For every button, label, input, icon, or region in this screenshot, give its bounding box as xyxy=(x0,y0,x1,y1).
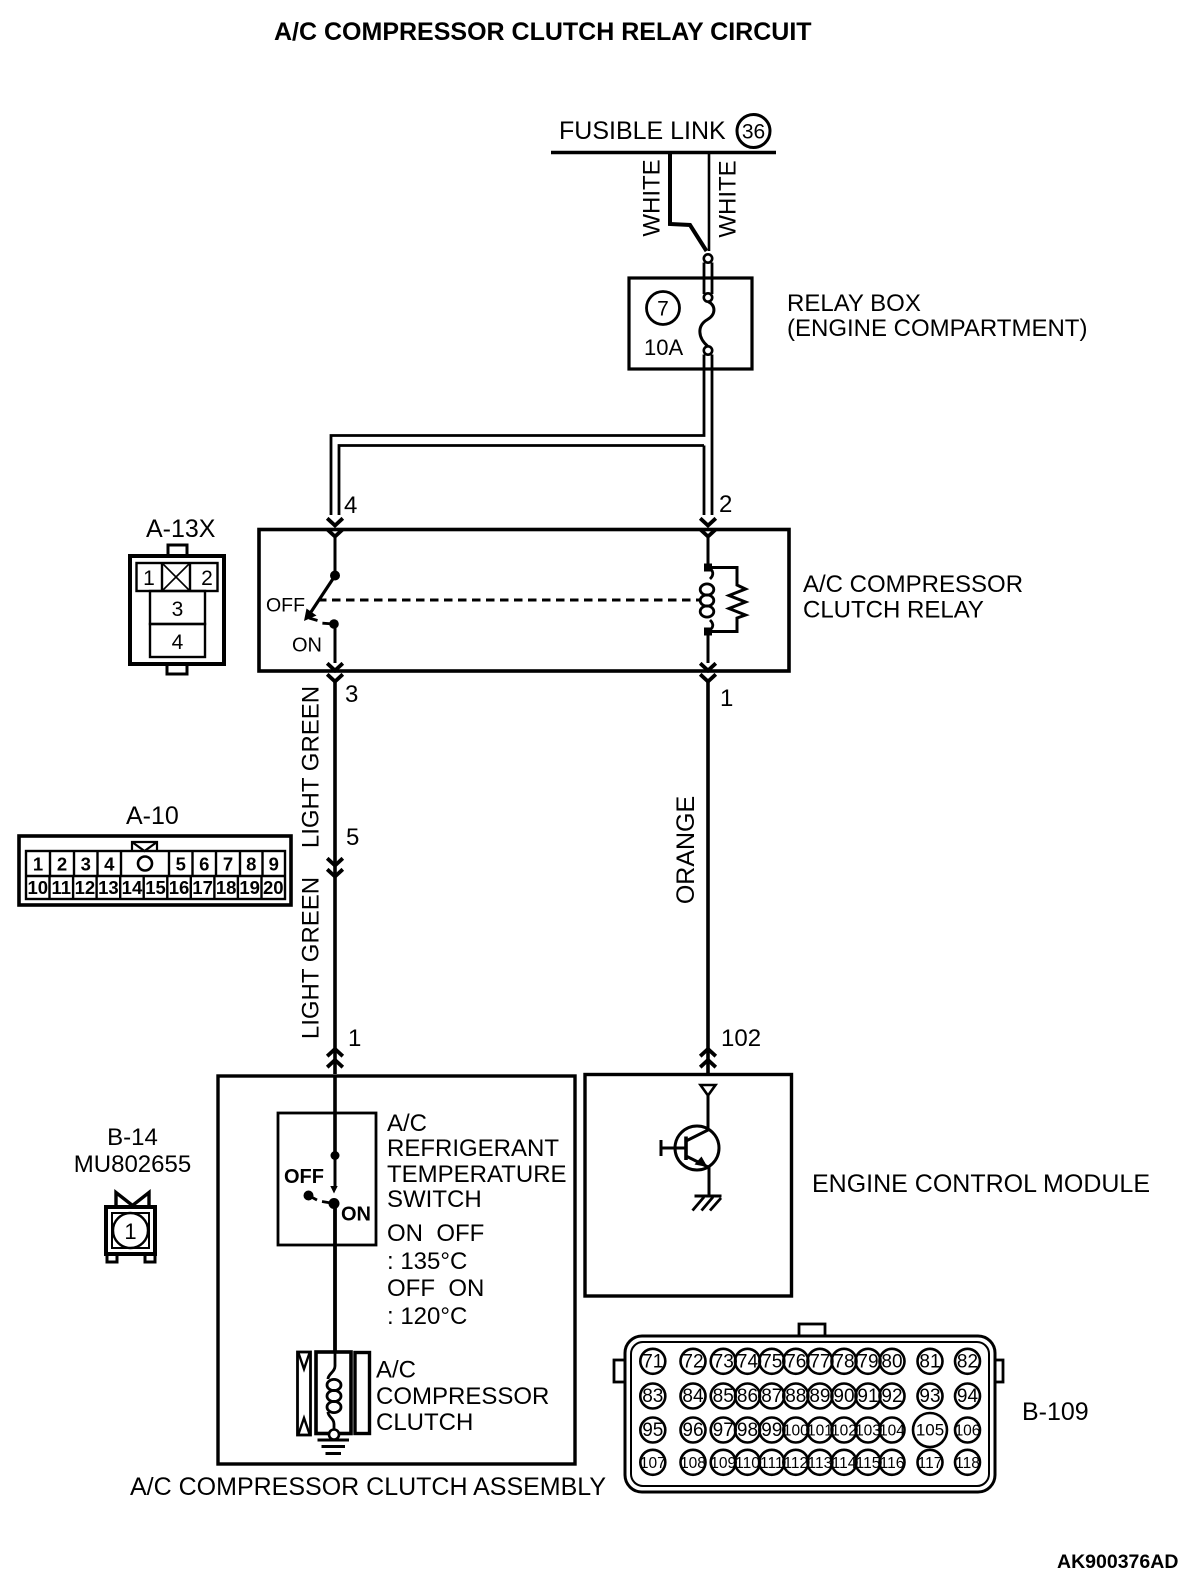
svg-text:90: 90 xyxy=(833,1386,854,1407)
svg-text:A-13X: A-13X xyxy=(146,515,216,543)
svg-text:2: 2 xyxy=(201,567,213,590)
svg-text:RELAY BOX: RELAY BOX xyxy=(787,290,921,317)
svg-text:16: 16 xyxy=(169,877,190,898)
svg-text:OFF ON: OFF ON xyxy=(387,1275,484,1302)
svg-text:REFRIGERANT: REFRIGERANT xyxy=(387,1135,559,1162)
svg-text:4: 4 xyxy=(104,854,115,875)
relay coil (inductor) xyxy=(708,568,713,579)
relay coil bottom node xyxy=(704,628,712,636)
clutch coil bobbin xyxy=(316,1352,351,1434)
wire hollow feed lower vertical xyxy=(331,355,704,516)
svg-text:12: 12 xyxy=(75,877,96,898)
wire ON contact to pin 3 xyxy=(334,626,337,663)
svg-text:CLUTCH: CLUTCH xyxy=(376,1409,473,1436)
svg-text:101: 101 xyxy=(807,1423,833,1440)
relay switch ON contact dot xyxy=(329,619,339,629)
svg-text:103: 103 xyxy=(855,1423,881,1440)
svg-text:14: 14 xyxy=(122,877,143,898)
fuse number 7 circled xyxy=(647,292,680,325)
A-10 pin numbers row2 xyxy=(27,877,283,898)
svg-text:A/C COMPRESSOR: A/C COMPRESSOR xyxy=(803,571,1023,598)
svg-text:LIGHT GREEN: LIGHT GREEN xyxy=(297,877,324,1039)
svg-text:110: 110 xyxy=(735,1455,760,1472)
svg-text:89: 89 xyxy=(809,1386,830,1407)
svg-text:WHITE: WHITE xyxy=(638,159,665,236)
B-109 pin row 71-82 xyxy=(640,1349,980,1374)
svg-text:112: 112 xyxy=(783,1455,808,1472)
svg-text:CLUTCH RELAY: CLUTCH RELAY xyxy=(803,597,984,624)
svg-text:: 135°C: : 135°C xyxy=(387,1248,467,1275)
relay coil top node xyxy=(704,564,712,572)
wire into temp switch xyxy=(333,1076,337,1152)
svg-text:97: 97 xyxy=(713,1420,734,1441)
svg-text:LIGHT GREEN: LIGHT GREEN xyxy=(297,686,324,848)
svg-text:2: 2 xyxy=(57,854,67,875)
svg-text:108: 108 xyxy=(680,1455,706,1472)
wire pin4 to switch xyxy=(334,537,337,572)
svg-text:3: 3 xyxy=(345,681,358,708)
svg-text:96: 96 xyxy=(682,1420,703,1441)
op A/C compressor clutch relay box xyxy=(259,530,789,672)
svg-text:7: 7 xyxy=(657,298,669,321)
svg-text:TEMPERATURE: TEMPERATURE xyxy=(387,1161,567,1188)
svg-text:ORANGE: ORANGE xyxy=(672,796,700,904)
ground (ECM chassis) xyxy=(695,1195,722,1198)
svg-text:1: 1 xyxy=(720,685,733,712)
B-109 pin row 95-106 xyxy=(640,1413,980,1447)
svg-text:78: 78 xyxy=(833,1351,854,1372)
svg-text:10A: 10A xyxy=(644,335,683,360)
svg-text:104: 104 xyxy=(879,1423,905,1440)
svg-text:94: 94 xyxy=(957,1386,979,1407)
svg-text:95: 95 xyxy=(642,1420,663,1441)
svg-text:4: 4 xyxy=(344,492,357,519)
svg-text:107: 107 xyxy=(640,1455,666,1472)
svg-text:B-109: B-109 xyxy=(1022,1398,1089,1426)
svg-text:72: 72 xyxy=(682,1351,703,1372)
clutch ground terminal circle xyxy=(329,1430,339,1440)
temp switch ON contact dot xyxy=(322,1202,334,1204)
svg-text:MU802655: MU802655 xyxy=(74,1151,191,1178)
B-109 pin row 83-94 xyxy=(640,1384,980,1409)
svg-text:3: 3 xyxy=(81,854,91,875)
svg-text:ON OFF: ON OFF xyxy=(387,1220,484,1247)
svg-text:A/C: A/C xyxy=(376,1357,416,1384)
pin 3 chevrons xyxy=(327,663,343,670)
svg-text:3: 3 xyxy=(172,598,184,621)
svg-text:100: 100 xyxy=(783,1423,809,1440)
svg-text:FUSIBLE LINK: FUSIBLE LINK xyxy=(559,117,726,145)
svg-text:20: 20 xyxy=(263,877,284,898)
svg-text:88: 88 xyxy=(785,1386,806,1407)
svg-text:102: 102 xyxy=(721,1025,761,1052)
svg-text:COMPRESSOR: COMPRESSOR xyxy=(376,1383,549,1410)
svg-text:AK900376AD: AK900376AD xyxy=(1057,1551,1178,1573)
svg-text:1: 1 xyxy=(348,1025,361,1052)
svg-text:2: 2 xyxy=(719,491,732,518)
svg-text:17: 17 xyxy=(192,877,213,898)
pin 5 connector chevrons xyxy=(327,858,343,865)
temp switch common dot xyxy=(331,1151,340,1160)
transistor Q1 collector input triangle xyxy=(701,1085,716,1096)
pin 1 chevrons (relay) xyxy=(700,663,716,670)
wire ORANGE xyxy=(706,680,710,1074)
svg-text:OFF: OFF xyxy=(266,595,305,617)
svg-text:113: 113 xyxy=(808,1455,833,1472)
svg-text:ON: ON xyxy=(292,635,322,657)
svg-text:114: 114 xyxy=(832,1455,857,1472)
B-109 pin row 107-118 xyxy=(640,1450,980,1475)
wire coil to pin 1 xyxy=(707,635,710,663)
svg-text:5: 5 xyxy=(346,824,359,851)
ground (clutch) xyxy=(318,1439,350,1442)
transistor Q1 xyxy=(661,1126,719,1170)
svg-text:81: 81 xyxy=(919,1351,940,1372)
svg-text:76: 76 xyxy=(785,1351,806,1372)
svg-text:99: 99 xyxy=(761,1420,782,1441)
wire hollow branch horizontal to pin 4 xyxy=(339,446,704,516)
svg-text:87: 87 xyxy=(761,1386,782,1407)
svg-text:ENGINE CONTROL MODULE: ENGINE CONTROL MODULE xyxy=(812,1170,1150,1198)
svg-text:SWITCH: SWITCH xyxy=(387,1186,482,1213)
relay switch arm to OFF xyxy=(311,578,334,612)
connector A-13X drawing xyxy=(130,545,224,674)
svg-text:109: 109 xyxy=(710,1455,736,1472)
temp switch wire w arrow xyxy=(334,1155,337,1186)
svg-text:9: 9 xyxy=(269,854,279,875)
svg-text:7: 7 xyxy=(223,854,233,875)
relay switch common dot xyxy=(330,571,340,581)
svg-text:36: 36 xyxy=(742,121,765,144)
svg-text:A/C COMPRESSOR CLUTCH RELAY CI: A/C COMPRESSOR CLUTCH RELAY CIRCUIT xyxy=(274,18,812,46)
wire WHITE left xyxy=(670,152,707,251)
svg-text:6: 6 xyxy=(199,854,209,875)
svg-text:106: 106 xyxy=(955,1423,981,1440)
power bus bar xyxy=(551,151,776,154)
wire LIGHT GREEN xyxy=(333,680,337,1074)
relay box (engine compartment) outline xyxy=(629,278,752,369)
svg-text:(ENGINE COMPARTMENT): (ENGINE COMPARTMENT) xyxy=(787,315,1087,342)
svg-text:92: 92 xyxy=(881,1386,902,1407)
svg-text:4: 4 xyxy=(172,631,184,654)
node junction circle top of fuse xyxy=(704,254,712,262)
fuse 7 10A element xyxy=(704,293,712,301)
svg-text:19: 19 xyxy=(239,877,260,898)
clutch coil winding xyxy=(328,1352,335,1379)
svg-text:75: 75 xyxy=(761,1351,782,1372)
svg-text:11: 11 xyxy=(52,877,72,898)
svg-text:115: 115 xyxy=(856,1455,881,1472)
svg-text:102: 102 xyxy=(831,1423,857,1440)
svg-text:OFF: OFF xyxy=(284,1166,324,1188)
temp switch OFF contact dot and arm xyxy=(304,1191,314,1201)
svg-text:15: 15 xyxy=(145,877,166,898)
pin 4 connector chevrons xyxy=(327,518,343,525)
svg-text:98: 98 xyxy=(737,1420,758,1441)
svg-text:A/C: A/C xyxy=(387,1110,427,1137)
engine control module box xyxy=(585,1075,792,1297)
A/C compressor clutch pulley plate xyxy=(298,1352,311,1435)
svg-text:5: 5 xyxy=(176,854,186,875)
connector B-109 drawing xyxy=(614,1324,1003,1492)
wire temp switch to clutch coil xyxy=(333,1204,337,1353)
wire WHITE right xyxy=(708,152,711,251)
A/C refrigerant temperature switch box xyxy=(278,1113,376,1245)
pin 1 connector chevrons (assembly) xyxy=(327,1049,343,1056)
svg-text:116: 116 xyxy=(880,1455,905,1472)
svg-text:WHITE: WHITE xyxy=(714,160,741,237)
svg-text:111: 111 xyxy=(760,1455,784,1472)
svg-text:105: 105 xyxy=(916,1421,944,1440)
svg-text:86: 86 xyxy=(737,1386,758,1407)
svg-text:73: 73 xyxy=(713,1351,734,1372)
svg-text:8: 8 xyxy=(246,854,256,875)
clutch armature plate xyxy=(355,1353,370,1434)
relay suppressor resistor xyxy=(708,568,746,632)
pin 2 connector chevrons xyxy=(700,518,716,525)
svg-text:: 120°C: : 120°C xyxy=(387,1303,467,1330)
connector A-10 drawing xyxy=(19,836,291,905)
fusible link number 36 xyxy=(737,115,770,148)
svg-text:1: 1 xyxy=(33,854,43,875)
svg-text:10: 10 xyxy=(27,877,48,898)
svg-text:13: 13 xyxy=(98,877,119,898)
wire hollow feed upper xyxy=(703,263,706,295)
svg-text:1: 1 xyxy=(124,1219,136,1244)
svg-text:77: 77 xyxy=(809,1351,830,1372)
svg-text:83: 83 xyxy=(642,1386,663,1407)
connector B-14 drawing xyxy=(106,1193,155,1263)
dashed actuation line xyxy=(318,599,700,602)
A-10 pin numbers row1 xyxy=(33,854,279,875)
svg-text:B-14: B-14 xyxy=(107,1124,158,1151)
pin 102 connector chevrons xyxy=(700,1049,716,1056)
svg-text:18: 18 xyxy=(216,877,237,898)
svg-text:A-10: A-10 xyxy=(126,802,179,830)
svg-text:71: 71 xyxy=(642,1351,663,1372)
svg-text:118: 118 xyxy=(955,1455,980,1472)
wire pin2 to coil xyxy=(707,537,710,564)
svg-text:85: 85 xyxy=(713,1386,734,1407)
svg-text:84: 84 xyxy=(682,1386,704,1407)
svg-text:117: 117 xyxy=(918,1455,943,1472)
svg-text:93: 93 xyxy=(919,1386,940,1407)
svg-text:91: 91 xyxy=(857,1386,878,1407)
svg-text:80: 80 xyxy=(881,1351,902,1372)
svg-text:A/C COMPRESSOR CLUTCH ASSEMBLY: A/C COMPRESSOR CLUTCH ASSEMBLY xyxy=(130,1473,606,1501)
svg-text:79: 79 xyxy=(857,1351,878,1372)
svg-text:82: 82 xyxy=(957,1351,978,1372)
svg-text:ON: ON xyxy=(341,1204,371,1226)
svg-text:74: 74 xyxy=(737,1351,759,1372)
A/C compressor clutch assembly box xyxy=(218,1076,575,1464)
wire emitter to ground xyxy=(708,1167,711,1196)
svg-text:1: 1 xyxy=(143,567,155,590)
